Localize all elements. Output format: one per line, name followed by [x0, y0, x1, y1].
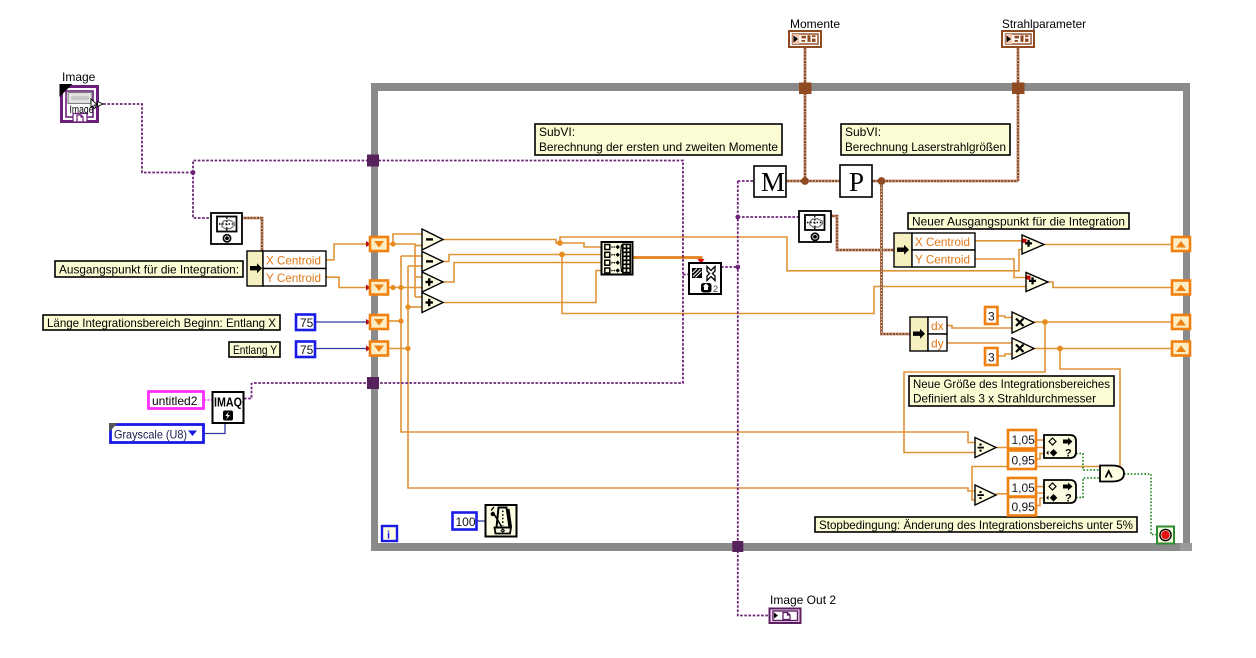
svg-text:1,05: 1,05 — [1012, 433, 1036, 447]
wire main vertical to Image Out 2 — [738, 181, 769, 616]
wire T1 out to matrix row1 — [443, 240, 602, 248]
label: Neuer Ausgangspunkt — [908, 213, 1129, 229]
svg-text:Stopbedingung: Änderung des In: Stopbedingung: Änderung des Integrations… — [819, 518, 1133, 532]
svg-text:3: 3 — [988, 351, 995, 365]
svg-text:Image Out 2: Image Out 2 — [770, 593, 836, 607]
wire bundle2 Y to plus2 top — [975, 259, 1026, 278]
wire block2 out — [721, 266, 738, 268]
wire P out to Strahlparameter junction — [872, 180, 1018, 183]
in range and coerce 2 — [1044, 480, 1076, 505]
svg-text:0,95: 0,95 — [1012, 500, 1036, 514]
blue wires — [204, 322, 485, 521]
wire stub T1 bottom — [415, 245, 422, 247]
label: SubVI Laserstrahl — [841, 124, 1010, 155]
svg-text:?: ? — [1065, 448, 1072, 460]
const 75 a — [296, 315, 315, 331]
wire T1 branch to plus1 — [556, 237, 1022, 271]
wire stub T4 bottom — [408, 306, 422, 308]
svg-text:0,95: 0,95 — [1012, 454, 1036, 468]
brown cluster wires — [243, 47, 1018, 334]
right shift register SR2R — [1172, 281, 1190, 295]
wire branch to centroid1 — [193, 173, 211, 219]
wire stub T3 top — [415, 276, 422, 278]
svg-text:Grayscale (U8): Grayscale (U8) — [114, 428, 187, 442]
svg-text:Neue Größe des Integrationsber: Neue Größe des Integrationsbereiches — [913, 377, 1110, 391]
svg-text:X Centroid: X Centroid — [266, 254, 321, 268]
wire P branch down to unbundle dxdy — [882, 181, 911, 334]
wire bundle2 X to plus1 top — [975, 240, 1022, 242]
purple tunnel bottom-left — [367, 377, 379, 389]
svg-text:1,05: 1,05 — [1012, 481, 1036, 495]
wire mult2 feedback to divide2 — [972, 349, 1120, 501]
centroid icon 1 — [211, 213, 242, 244]
wire stub T2 top — [401, 255, 422, 257]
wire 75a to SR3 — [315, 321, 371, 323]
and gate — [1100, 466, 1124, 482]
purple tunnel bottom (image out) — [732, 541, 743, 552]
wire mult2 out to right SR4 — [1034, 348, 1172, 350]
wire inrange1 to and — [1076, 454, 1100, 471]
Image control — [60, 70, 104, 122]
Momente indicator — [789, 17, 840, 47]
svg-text:75: 75 — [300, 343, 314, 357]
Strahlparameter indicator — [1002, 17, 1086, 47]
M block — [754, 166, 786, 197]
P block — [840, 165, 872, 197]
plus triangle P2 — [1026, 273, 1048, 292]
wire mult1 feedback to divide1 — [904, 322, 1045, 453]
wire T3 out to matrix row3 — [443, 263, 602, 283]
string constant untitled2 — [149, 392, 204, 409]
matrix build block — [602, 242, 633, 275]
wire T2 out to matrix row2 — [443, 255, 602, 262]
svg-text:Berechnung der ersten und zwei: Berechnung der ersten und zweiten Moment… — [539, 140, 778, 154]
right shift register SR1R — [1172, 237, 1190, 251]
wire Y Centroid to SR2 — [326, 277, 371, 287]
green boolean wires — [1076, 454, 1157, 535]
right shift register SR4R — [1172, 342, 1190, 356]
centroid icon 2 — [799, 211, 831, 242]
wire const095b to inrange2 — [1036, 498, 1044, 506]
wire centroid1 to bundle1 — [243, 218, 262, 251]
wire branch to loop — [193, 161, 683, 384]
wire SR1 branch vertical — [393, 244, 415, 297]
svg-text:Strahlparameter: Strahlparameter — [1002, 17, 1086, 31]
add T3 — [422, 272, 443, 292]
label: Stopbedingung — [815, 517, 1137, 532]
wire SR2 to T3 bottom — [388, 287, 422, 289]
unbundle dx dy — [910, 317, 947, 351]
const 75 b — [296, 342, 315, 358]
label: SubVI Momente — [535, 124, 782, 155]
svg-text:dy: dy — [931, 337, 944, 351]
label: Laenge Integrationsbereich — [43, 315, 280, 330]
wire centroid2 to bundle2 — [831, 216, 894, 250]
IMAQ Create block — [213, 392, 244, 423]
left shift register SR4 — [366, 342, 388, 356]
svg-text:Ausgangspunkt für die Integrat: Ausgangspunkt für die Integration: — [59, 263, 239, 277]
wire const3b to mult2 bottom — [998, 354, 1012, 356]
purple tunnel top-left — [367, 155, 379, 167]
left shift register SR2 — [366, 281, 388, 295]
wire X Centroid to SR1 — [326, 244, 371, 260]
wire 100 to wait — [477, 520, 485, 522]
purple image wires — [99, 104, 799, 616]
svg-text:Momente: Momente — [790, 17, 840, 31]
red arrow into block2 — [698, 259, 705, 264]
wire stub T4 top — [415, 296, 422, 298]
wire const095a to inrange1 — [1036, 454, 1044, 460]
svg-text:M: M — [761, 167, 785, 197]
wire SR3 out — [388, 320, 401, 322]
wire stub T2 bottom — [408, 265, 422, 267]
svg-text:3: 3 — [988, 310, 995, 324]
thick orange array wire matrix to block2 — [632, 258, 701, 262]
add T4 — [422, 293, 443, 313]
multiply X1 — [1012, 312, 1034, 333]
svg-text:X Centroid: X Centroid — [915, 235, 970, 249]
wire to centroid2 — [738, 216, 799, 218]
wire T2 branch to plus2 — [562, 255, 1026, 314]
wire to M block — [738, 180, 754, 182]
label: Neue Groesse — [909, 376, 1114, 406]
const 100 — [453, 513, 477, 530]
wire const3a to mult1 top — [998, 316, 1012, 318]
left shift register SR1 — [366, 237, 388, 251]
wire inrange2 to and — [1076, 478, 1100, 498]
wire and to stop terminal — [1124, 474, 1157, 535]
wire dy to mult2 top — [947, 342, 1012, 344]
svg-text:75: 75 — [300, 316, 314, 330]
wire const105a to inrange1 — [1036, 439, 1044, 441]
const 1,05 a — [1008, 430, 1036, 449]
svg-text:Entlang Y: Entlang Y — [233, 343, 277, 357]
wire stub into block2 — [683, 274, 689, 276]
divide D1 — [975, 438, 996, 458]
label: Ausgangspunkt — [55, 261, 243, 277]
iteration terminal i — [382, 526, 397, 542]
svg-text:?: ? — [1065, 493, 1072, 505]
wire SR1 to subtract T1 top — [388, 234, 422, 244]
wire Strahlparameter up — [1017, 47, 1020, 181]
wire SR4 out — [388, 348, 408, 350]
brown wire white dots overlay — [243, 47, 1018, 334]
orange junction dots — [390, 240, 1063, 351]
svg-text:100: 100 — [456, 515, 476, 529]
wire divide2 out to inrange2 — [996, 493, 1044, 494]
plus triangle P1 — [1022, 235, 1044, 254]
svg-text:Image: Image — [62, 70, 96, 84]
wire dx to mult1 bottom — [947, 326, 1012, 329]
svg-text:i: i — [387, 530, 390, 542]
multiply X2 — [1012, 338, 1034, 359]
brown tunnel Strahlparameter — [1012, 83, 1025, 95]
svg-text:SubVI:: SubVI: — [845, 125, 881, 139]
enum Grayscale (U8) — [109, 423, 204, 443]
while loop border — [371, 83, 1192, 551]
brown tunnel Momente — [799, 83, 812, 95]
purple junction dots — [191, 170, 741, 269]
label: Entlang Y — [229, 342, 280, 357]
subtract T2 — [422, 252, 443, 272]
const 3 a — [985, 307, 998, 324]
wire vertical v408 — [407, 266, 409, 349]
orange wires — [326, 234, 1172, 506]
wire const105b to inrange2 — [1036, 486, 1044, 488]
svg-text:Y Centroid: Y Centroid — [266, 271, 321, 285]
wire 75b to SR4 — [315, 348, 371, 350]
svg-text:Y Centroid: Y Centroid — [915, 253, 970, 267]
const 0,95 b — [1008, 497, 1036, 516]
const 3 b — [985, 348, 998, 365]
svg-text:Berechnung Laserstrahlgrößen: Berechnung Laserstrahlgrößen — [845, 140, 1006, 154]
wire vertical v401 — [400, 256, 402, 321]
IMAQ subVI block2 — [689, 263, 721, 294]
wait ms metronome — [486, 505, 517, 537]
wire divide1 out to inrange1 — [996, 447, 1044, 449]
svg-text:dx: dx — [931, 319, 944, 333]
wire Momente indicator down — [804, 47, 807, 181]
svg-text:2: 2 — [713, 284, 718, 294]
wire M to P — [786, 180, 840, 183]
Image Out 2 indicator — [770, 593, 837, 623]
divide D2 — [975, 485, 996, 505]
svg-text:IMAQ: IMAQ — [214, 396, 242, 410]
subtract T1 — [422, 229, 443, 250]
unbundle1 X/Y Centroid — [247, 251, 326, 286]
left shift register SR3 — [366, 315, 388, 329]
pink string wire — [204, 399, 212, 401]
wire grayscale to IMAQ — [204, 423, 225, 434]
unbundle2 X/Y Centroid — [894, 233, 975, 267]
wire IMAQ create out — [244, 383, 252, 399]
wire T4 out to matrix row4 — [443, 271, 602, 303]
const 0,95 a — [1008, 451, 1036, 470]
svg-text:SubVI:: SubVI: — [539, 125, 575, 139]
right shift register SR3R — [1172, 315, 1190, 329]
svg-text:P: P — [849, 167, 864, 197]
wire mult1 out to right SR3 — [1034, 321, 1172, 323]
const 1,05 b — [1008, 478, 1036, 497]
brown junction dots — [802, 178, 885, 185]
wire Image control main — [99, 104, 193, 173]
svg-text:untitled2: untitled2 — [152, 394, 198, 408]
wire SR4 long A2 to divide2 — [408, 349, 975, 492]
svg-text:Definiert als 3 x Strahldurchm: Definiert als 3 x Strahldurchmesser — [913, 392, 1096, 406]
wire SR3 long A to divide1 — [401, 321, 975, 443]
svg-text:Neuer Ausgangspunkt für die In: Neuer Ausgangspunkt für die Integration — [912, 215, 1125, 229]
in range and coerce 1 — [1044, 435, 1076, 460]
wire plus2 out to right SR2 — [1048, 282, 1172, 288]
wire plus1 out to right SR1 — [1044, 244, 1172, 246]
svg-text:Länge Integrationsbereich Begi: Länge Integrationsbereich Beginn: Entlan… — [47, 316, 276, 330]
loop stop terminal — [1157, 527, 1174, 544]
